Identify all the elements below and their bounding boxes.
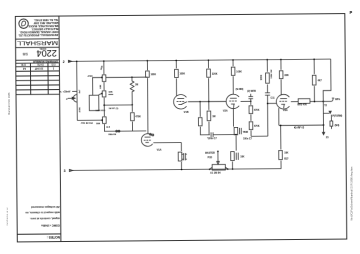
resistor R10 (V1a anode load) — [146, 71, 150, 77]
svg-text:12-3-87: 12-3-87 — [34, 67, 43, 70]
svg-text:4n5: 4n5 — [106, 126, 111, 129]
link contacts on grid wire — [116, 130, 118, 132]
resistor R18 (V2a anode load) — [231, 67, 235, 75]
svg-text:FIRST AVENUE, DENBIGH ROAD,: FIRST AVENUE, DENBIGH ROAD, — [19, 30, 58, 33]
svg-text:AJ: AJ — [22, 67, 26, 70]
resistor R17 — [207, 111, 211, 121]
svg-text:100n C7: 100n C7 — [243, 139, 253, 141]
svg-text:J: J — [66, 97, 68, 101]
revision table column dividers — [29, 63, 31, 94]
svg-text:1BK: 1BK — [96, 123, 101, 125]
svg-text:T2: T2 — [324, 105, 327, 107]
wire: V2a cathode chain — [232, 109, 234, 127]
capacitor C3 (V1a cathode bypass) — [183, 153, 185, 160]
svg-text:23: 23 — [326, 137, 329, 139]
svg-text:(N 380): (N 380) — [236, 89, 244, 91]
wire: feedback KIARF 03 — [279, 124, 324, 126]
svg-text:with respect to chassis, no: with respect to chassis, no — [25, 211, 61, 215]
svg-text:ISS: ISS — [51, 63, 55, 66]
svg-text:WFb: WFb — [335, 99, 341, 101]
valve V3a (triode, phase splitter) — [276, 94, 289, 109]
svg-text:file:///C|/Fix/Schem/Marshall: file:///C|/Fix/Schem/Marshall DSR 1986 A… — [351, 167, 354, 221]
svg-text:2: 2 — [63, 60, 65, 64]
svg-text:KIARF 03: KIARF 03 — [294, 127, 305, 130]
wire: net 1 mix node — [103, 104, 105, 106]
wire: V3a cathode to tail — [278, 108, 280, 125]
valve V2a (triode) — [226, 94, 239, 109]
svg-text:100K: 100K — [151, 74, 157, 76]
resistor R4 — [103, 117, 107, 124]
wire: tail join — [251, 135, 268, 137]
svg-text:C11: C11 — [271, 98, 276, 100]
wire: V1b plate node to V2a grid — [208, 100, 226, 102]
input loop wiring (R4/C1) — [89, 95, 99, 110]
resistor R25 (horizontal) — [298, 99, 310, 104]
wire: node A right to V1a anode column — [106, 76, 147, 78]
title column right edge line — [59, 16, 61, 241]
wire: V3a output through R25 — [291, 101, 298, 103]
svg-text:MILTON KEYNES, BUCKS.: MILTON KEYNES, BUCKS. — [28, 24, 59, 27]
svg-text:NOTES :: NOTES : — [47, 235, 60, 239]
resistor R20 / capacitor C9 pair — [231, 152, 235, 161]
svg-text:10K: 10K — [284, 153, 289, 155]
svg-text:MARSHALL: MARSHALL — [16, 39, 58, 45]
wire: chain bottom to V1a grid — [104, 124, 146, 131]
wire: V3a grid — [268, 102, 277, 104]
resistor R11 (V1a cathode) — [178, 152, 182, 161]
svg-text:V1B: V1B — [184, 111, 189, 114]
svg-text:signal, controls at zero.: signal, controls at zero. — [30, 216, 60, 220]
pin contacts above V1a — [150, 133, 152, 135]
wire: V1a cathode to bias network — [153, 141, 181, 143]
svg-text:470K: 470K — [254, 109, 260, 112]
svg-text:BLETCHLEY DISTRICT,: BLETCHLEY DISTRICT, — [31, 27, 58, 30]
wire: V1a anode — [146, 78, 148, 134]
wire: V2a output node — [241, 100, 251, 102]
wire: 0V bottom rail — [70, 169, 281, 171]
resistor R19 / capacitor C8 pair — [234, 127, 238, 134]
valve V1a (triode) — [141, 134, 152, 147]
svg-text:(2) WFB: (2) WFB — [247, 91, 256, 93]
resistor R2 — [102, 75, 106, 82]
maker logo (circled emblem, upside down) — [19, 19, 28, 28]
svg-text:All voltages measured: All voltages measured — [31, 205, 60, 209]
valve V1b (triode) — [174, 95, 187, 110]
notes box divider line — [17, 233, 60, 235]
wire: node A left branch — [93, 77, 102, 95]
revision table row lines — [16, 65, 59, 67]
resistor R22 — [249, 122, 253, 130]
resistor R15 — [199, 101, 201, 103]
wire: jack line to grid chain — [77, 119, 102, 121]
svg-text:1M: 1M — [135, 85, 138, 87]
wire: V1b output — [188, 101, 208, 103]
resistor R3 — [102, 91, 106, 97]
svg-text:MASTER: MASTER — [205, 151, 215, 154]
svg-text:470K: 470K — [78, 107, 81, 113]
notes list (upside down) — [25, 205, 61, 228]
wire: V2a anode — [232, 76, 234, 94]
svg-text:*100n C7: *100n C7 — [207, 138, 217, 140]
svg-text:470K: 470K — [254, 125, 260, 128]
connector (M4) — [330, 115, 332, 121]
svg-text:In. +10mV: In. +10mV — [59, 91, 71, 94]
svg-text:V3A: V3A — [283, 109, 288, 112]
input jack J (half-circle on wire) — [73, 95, 77, 103]
svg-text:R8A R9: R8A R9 — [108, 133, 117, 136]
svg-text:V2A: V2A — [223, 110, 228, 113]
capacitor C7 — [210, 132, 212, 137]
svg-text:100K: 100K — [236, 71, 242, 73]
svg-text:4n7: 4n7 — [78, 89, 81, 94]
resistor R27 (tail) — [279, 151, 283, 160]
svg-text:A1 1M B4: A1 1M B4 — [210, 172, 221, 175]
svg-text:P(FORM): P(FORM) — [332, 115, 342, 117]
svg-text:1M: 1M — [212, 116, 215, 118]
resistor R23 (PI input) — [266, 73, 270, 83]
svg-text:P1D: P1D — [208, 157, 213, 159]
svg-text:CHK: CHK — [20, 63, 26, 66]
svg-text:4K7: 4K7 — [318, 79, 323, 82]
svg-text:3: 3 — [64, 169, 66, 173]
svg-text:TEL No. 0908 375411.: TEL No. 0908 375411. — [33, 18, 58, 21]
svg-text:1: 1 — [52, 67, 54, 70]
wire: node B left branch into loop — [99, 94, 102, 95]
svg-text:JIM MARSHALL (PRODUCTS) LTD.: JIM MARSHALL (PRODUCTS) LTD. — [18, 33, 59, 36]
capacitor C10 — [250, 99, 252, 101]
resistor R14 (V1b anode load) — [175, 69, 179, 77]
maker address block (upside down tiny text) — [18, 18, 59, 36]
svg-text:ENGLAND. MK1 1HW: ENGLAND. MK1 1HW — [33, 21, 58, 24]
svg-text:68K: 68K — [109, 92, 113, 94]
resistor R24 (V3a anode load) — [279, 71, 283, 79]
node T2 — [322, 101, 324, 103]
svg-text:R27: R27 — [284, 158, 289, 160]
svg-text:100K: 100K — [261, 74, 263, 80]
resistor R16 (slope) — [207, 69, 211, 77]
svg-text:1M R7 (1): 1M R7 (1) — [109, 108, 119, 110]
resistor R21 — [249, 106, 253, 114]
svg-text:MODEL: MODEL — [39, 47, 47, 49]
svg-text:NFB 47K: NFB 47K — [297, 103, 307, 106]
resistor R5 (grid stopper zigzag) — [130, 77, 134, 105]
wire and terminal P(FORM) — [323, 101, 329, 113]
svg-text:750R: 750R — [243, 132, 249, 134]
wire: V1b anode — [175, 78, 177, 95]
svg-text:82K: 82K — [285, 75, 290, 77]
resistor R6 — [131, 113, 135, 121]
svg-text:.TR3 BC184: .TR3 BC184 — [80, 122, 93, 125]
output terminal WFB (curl) — [331, 98, 334, 101]
svg-text:100K: 100K — [180, 73, 186, 75]
svg-text:DATE: DATE — [37, 63, 44, 66]
svg-text:470K: 470K — [135, 115, 141, 118]
svg-text:S/B: S/B — [22, 52, 28, 56]
wire: net 2 drop to input jack — [76, 61, 79, 120]
svg-text:1K5: 1K5 — [100, 65, 105, 71]
wire: rail drop to output node — [323, 59, 331, 101]
svg-text:09/08/2002 19:19: 09/08/2002 19:19 — [7, 207, 9, 226]
svg-text:P: P — [350, 10, 353, 15]
wire: HT supply top rail — [69, 59, 331, 61]
title block (rotated 180 in scan) : horizontal dividers — [16, 38, 59, 40]
svg-text:V1A: V1A — [157, 149, 162, 152]
svg-text:10K: 10K — [240, 156, 245, 158]
capacitor C11 — [266, 84, 268, 92]
svg-text:220K: 220K — [212, 73, 218, 75]
svg-text:68K: 68K — [100, 84, 102, 88]
svg-text:OSMC +10dBu: OSMC +10dBu — [41, 224, 60, 228]
svg-text:(M4): (M4) — [335, 124, 340, 127]
svg-text:Marshall DSR 1986: Marshall DSR 1986 — [7, 92, 11, 115]
svg-text:100K 1W: 100K 1W — [271, 69, 273, 79]
resistor R26 (from rail) — [312, 75, 316, 85]
